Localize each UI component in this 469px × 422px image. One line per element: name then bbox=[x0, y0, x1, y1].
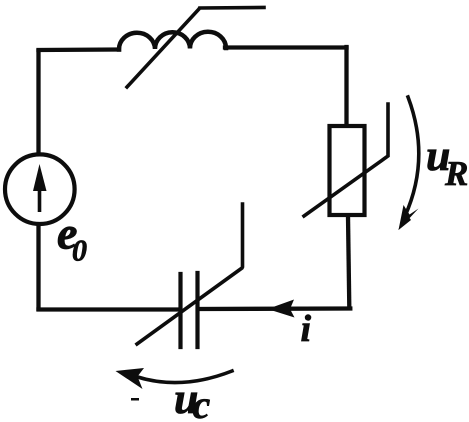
wire top right segment bbox=[225, 45, 347, 49]
source circle e0 bbox=[5, 154, 75, 224]
wire right vertical upper bbox=[344, 47, 348, 125]
wire right vertical lower bbox=[348, 216, 349, 308]
resistor R body bbox=[330, 126, 365, 215]
label e0 - subscript 0 bbox=[73, 241, 87, 261]
stray dot bbox=[131, 398, 139, 401]
inductor variable diagonal bbox=[127, 8, 264, 88]
inductor L humps bbox=[119, 32, 226, 50]
wire bottom right segment bbox=[198, 306, 350, 311]
wire left vertical lower bbox=[36, 225, 40, 309]
capacitor left plate bbox=[178, 274, 182, 347]
label uc - subscript c bbox=[193, 399, 210, 418]
label uR - subscript R bbox=[445, 162, 467, 185]
resistor variable diagonal bbox=[304, 104, 388, 216]
wire bottom left segment bbox=[39, 307, 181, 311]
current arrow i head bbox=[268, 300, 295, 318]
capacitor variable diagonal bbox=[137, 204, 243, 344]
capacitor right plate bbox=[195, 273, 199, 347]
wire left vertical bbox=[36, 51, 40, 153]
uR arc arrow body bbox=[405, 97, 419, 216]
uR arrow head bbox=[399, 205, 419, 230]
label i bbox=[302, 315, 311, 341]
uc arc arrow body bbox=[136, 371, 232, 383]
label e0 - e bbox=[58, 227, 76, 249]
uc arrow head bbox=[116, 368, 145, 389]
source arrow bbox=[33, 164, 47, 191]
label uR - u bbox=[428, 150, 449, 171]
label uc - u bbox=[176, 393, 197, 414]
wire top left segment bbox=[39, 47, 120, 52]
